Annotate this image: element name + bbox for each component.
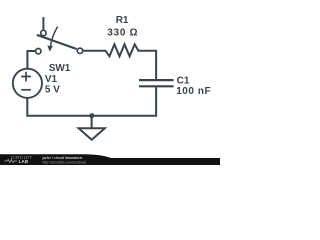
voltage source V1 <box>13 69 42 98</box>
svg-text:SW1: SW1 <box>49 63 71 74</box>
svg-text:LAB: LAB <box>19 159 29 164</box>
svg-text:R1: R1 <box>116 15 129 26</box>
svg-text:5 V: 5 V <box>45 85 60 96</box>
watermark CircuitLab logo <box>5 155 33 164</box>
wire: bottom rail junction to capacitor bottom <box>92 87 156 115</box>
capacitor C1 <box>139 80 174 86</box>
svg-text:330 Ω: 330 Ω <box>107 28 138 39</box>
svg-text:http://circuitlab.com/csvzbaar: http://circuitlab.com/csvzbaar <box>43 160 88 164</box>
watermark attribution text <box>42 156 88 164</box>
watermark bar <box>0 154 220 165</box>
ground <box>79 116 105 140</box>
wire: top-left from switch to V1 top <box>27 51 35 69</box>
svg-text:100 nF: 100 nF <box>176 86 211 97</box>
svg-text:C1: C1 <box>177 75 190 86</box>
svg-text:V1: V1 <box>45 74 58 85</box>
node junction dot <box>89 113 94 118</box>
wire: V1 bottom to bottom-left corner to ground junction <box>27 98 91 116</box>
resistor R1 <box>83 44 156 79</box>
switch SW1 <box>36 17 83 54</box>
